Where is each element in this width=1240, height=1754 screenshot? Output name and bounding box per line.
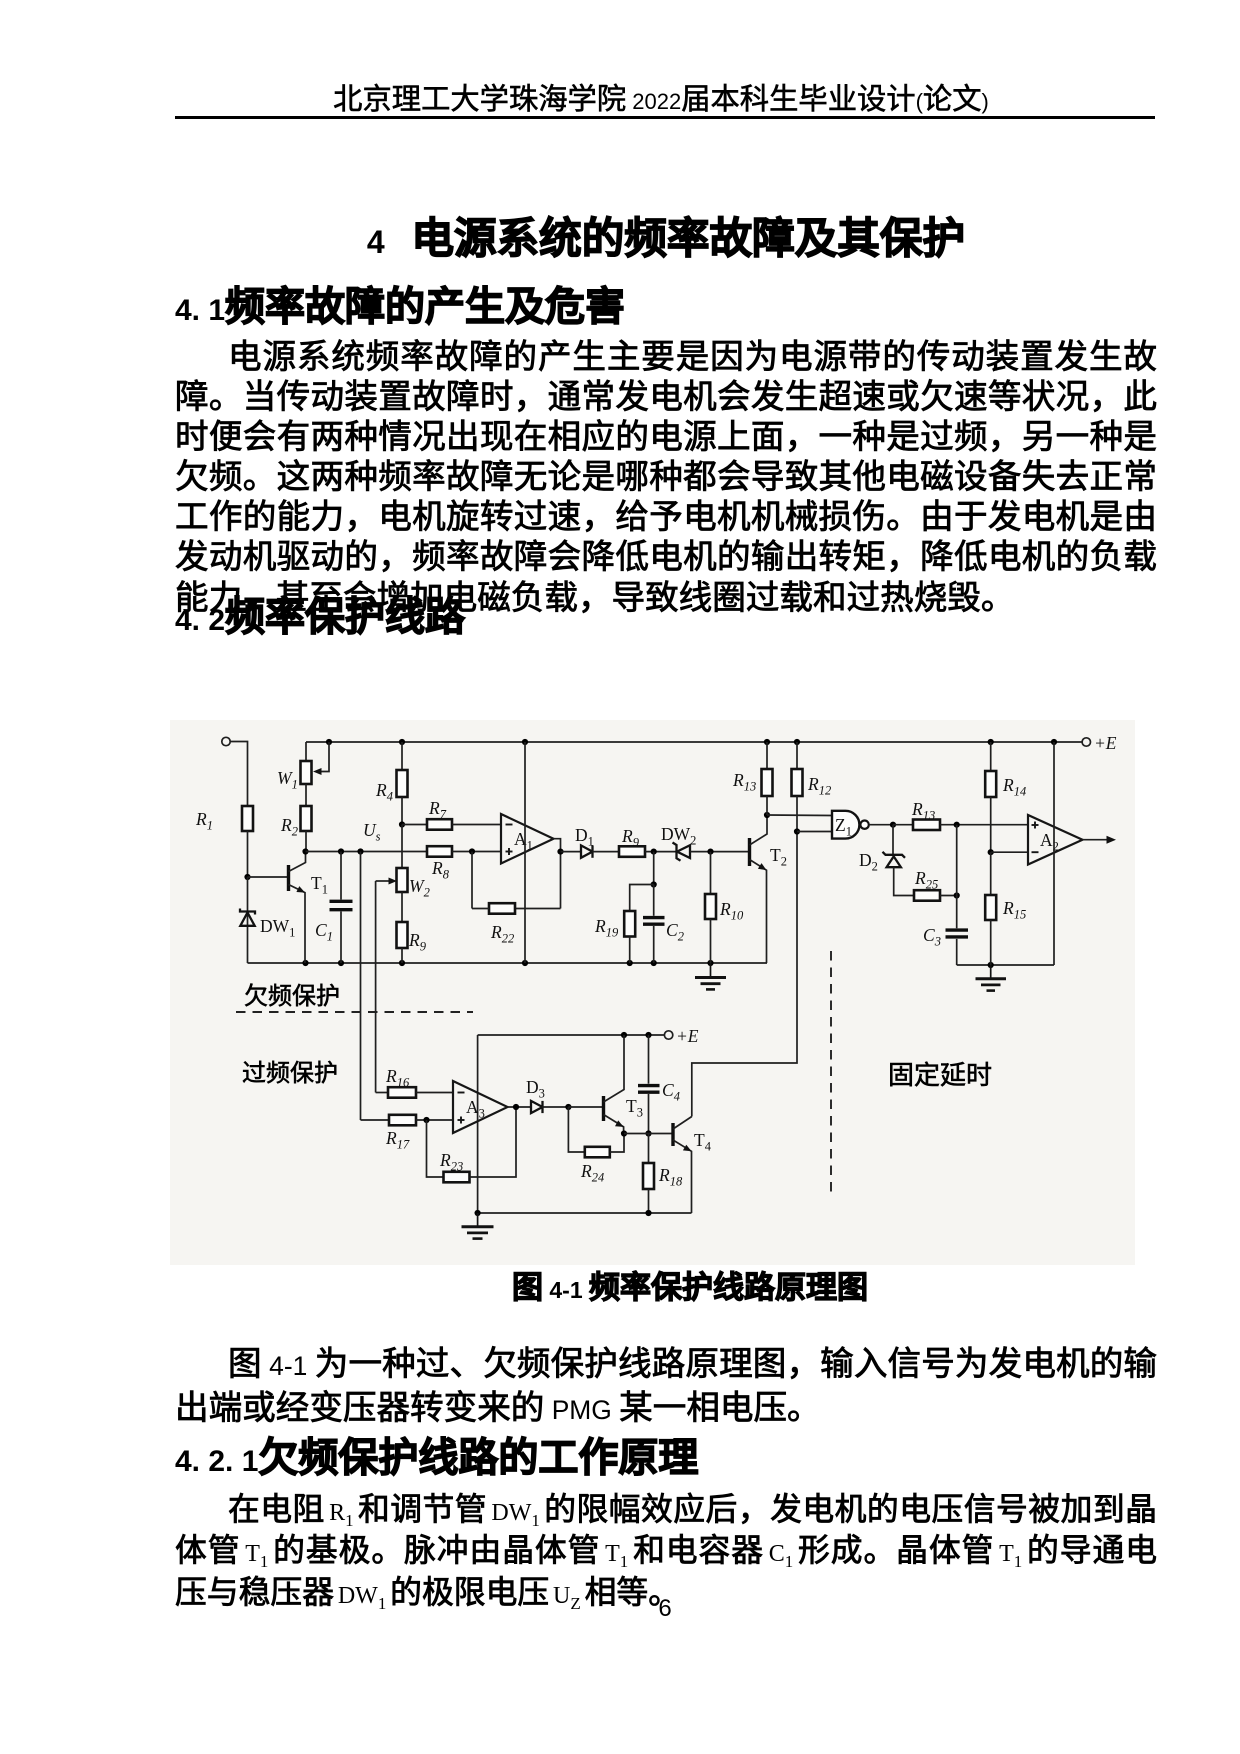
wire R9 to DW2 (645, 851, 677, 853)
ground rail (right section) (957, 964, 1054, 966)
wire A1 output (554, 839, 561, 909)
node Us (399, 821, 405, 827)
resistor R25 (914, 868, 957, 901)
page number (0, 1595, 1240, 1623)
paragraph 3 (175, 1489, 1157, 1613)
node feedback tap (469, 848, 475, 854)
transistor T4 (673, 1117, 712, 1214)
wire A3 output (508, 1106, 531, 1108)
label: over-frequency protection (242, 1053, 338, 1088)
feedback resistor R23 (427, 1107, 517, 1182)
input terminal (222, 737, 230, 745)
resistor R12 (792, 742, 832, 798)
wire Z1 output (869, 824, 893, 826)
transistor T3 (604, 1035, 643, 1134)
node A1 output junction (557, 849, 563, 855)
node: T1 collector junction (302, 848, 308, 854)
section 4.2 heading (175, 597, 465, 641)
resistor R18 (643, 1134, 683, 1214)
section divider dashed horizontal (236, 1011, 473, 1013)
resistor R13 (delay) (893, 799, 1028, 830)
wire W2 wiper down to R16 (overfreq section) (375, 881, 377, 1093)
chapter title (0, 218, 1240, 263)
op-amp A3 supply line (477, 1035, 479, 1213)
resistor R19 (594, 911, 635, 963)
wire sense node down to R17 (overfreq section) (360, 852, 362, 1121)
node Z1 output junction (890, 822, 896, 828)
resistor R16 (385, 1066, 453, 1098)
wire tap to A2 inverting input (991, 851, 1028, 853)
node C4 bottom (645, 1130, 651, 1136)
node: T1 base junction (244, 874, 250, 880)
label: fixed delay (888, 1055, 992, 1092)
ground symbol (lower section) (462, 1213, 494, 1239)
transistor T1 (289, 852, 328, 964)
wire R7 to A1 inverting input (452, 824, 501, 826)
node R19/C2 tap (651, 849, 657, 855)
svg-text:+E: +E (676, 1026, 699, 1046)
NAND gate Z1 (832, 811, 869, 839)
node R23 tap (423, 1117, 429, 1123)
wire node to DW1 and down to rail (247, 877, 249, 963)
node R19/C2 split (651, 881, 657, 887)
feedback resistor R22 (472, 852, 561, 946)
label: under-frequency protection (244, 976, 340, 1011)
zener diode DW1 (240, 909, 295, 940)
figure background tint (170, 720, 1135, 1265)
capacitor C4 (638, 1035, 680, 1134)
capacitor C1 (315, 852, 353, 964)
resistor R9 (pulse network) (619, 826, 645, 857)
header rule (175, 116, 1155, 119)
node T3 emitter junction (621, 1130, 627, 1136)
resistor R10 (705, 852, 744, 963)
resistor R1 (195, 806, 253, 833)
wire sense to R16 (376, 1092, 388, 1094)
op-amp A3 (453, 1081, 508, 1133)
potentiometer W1 (277, 742, 329, 792)
figure 4-1: frequency protection circuit schematic (170, 720, 1135, 1265)
paragraph about figure (175, 1343, 1157, 1430)
figure caption (0, 1272, 1240, 1305)
resistor R7 (427, 798, 452, 830)
svg-text:+E: +E (1094, 733, 1117, 753)
section 4.1 heading (175, 287, 625, 331)
capacitor C3 (923, 825, 968, 965)
wire node to T3 base (568, 1106, 603, 1108)
wire emitter row to T4 base (624, 1133, 673, 1135)
resistor R2 (280, 784, 312, 852)
zener diode D2 (859, 825, 905, 874)
node C1 top (338, 848, 344, 854)
ground symbol (main rail) (695, 963, 726, 989)
node Z1 input 2 (794, 828, 800, 834)
resistor R13 (T2 collector load) (732, 742, 773, 815)
resistor R8 (427, 846, 452, 881)
op-amp A1 (501, 814, 554, 864)
node: rail junctions (302, 960, 308, 966)
wire D2 to R25 (894, 867, 914, 895)
wire collector row to R8 (306, 851, 428, 853)
diode D3 (526, 1077, 568, 1113)
page header text (0, 85, 1240, 116)
top supply rail (306, 741, 1082, 743)
wire R8 to A1 non-inverting input (452, 851, 501, 853)
wire sense to R17 (361, 1119, 390, 1121)
capacitor C2 (643, 885, 684, 964)
bottom supply rail (left section) (248, 962, 768, 964)
+E rail (lower section) (478, 1026, 699, 1046)
zener diode DW2 (661, 824, 696, 861)
resistor R17 (385, 1115, 453, 1152)
node R25/C3 (954, 892, 960, 898)
ground rail (lower section) (478, 1212, 692, 1214)
op-amp A2 supply line (1053, 742, 1055, 965)
node underfreq sense (357, 848, 363, 854)
wire DW2 to T2 base (690, 851, 750, 853)
node R10 tap (707, 849, 713, 855)
wire split to R19 (630, 885, 654, 912)
node T3 base junction (565, 1104, 571, 1110)
paragraph 1 (175, 338, 1157, 619)
node T2 collector (764, 812, 770, 818)
+E terminal (top right) (1082, 733, 1117, 753)
wire tap down (653, 852, 655, 885)
wire node to T1 base (248, 876, 289, 878)
wire R1 to T1 base node (247, 831, 249, 877)
resistor R14 (985, 742, 1026, 852)
wire input to R1 (230, 742, 247, 807)
section divider dashed vertical (830, 951, 832, 1196)
resistor R4 (375, 742, 408, 825)
wire node to Z1 input 2 (797, 831, 832, 833)
wire output to D1 (561, 851, 582, 853)
section 4.2.1 heading (175, 1438, 698, 1482)
diode D1 (575, 825, 594, 858)
wire D1 to R9 (593, 851, 620, 853)
op-amp A1 supply line (524, 742, 526, 963)
resistor R24 (568, 1107, 624, 1185)
resistor R9 (divider) (397, 892, 427, 963)
wire R12 down to T4 collector (long link) (692, 796, 797, 1117)
node C3 branch (954, 822, 960, 828)
transistor T2 (750, 815, 787, 963)
wire A2 output with arrow (1083, 836, 1117, 844)
node divider tap (988, 849, 994, 855)
potentiometer W2 (376, 825, 430, 900)
op-amp A2 (1028, 815, 1083, 865)
wire T2 collector to Z1 input 1 (767, 814, 832, 817)
resistor R15 (985, 852, 1026, 965)
wire Us to R7 (402, 824, 427, 826)
ground symbol (right section) (976, 965, 1007, 991)
node A3 output junction (513, 1104, 519, 1110)
